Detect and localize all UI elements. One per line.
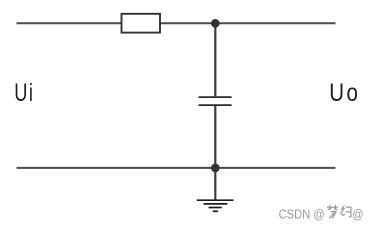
svg-text:CSDN @: CSDN @ [279,207,325,222]
svg-text:Uo: Uo [329,78,360,106]
svg-text:Ui: Ui [14,78,34,107]
svg-text:@: @ [352,207,363,222]
